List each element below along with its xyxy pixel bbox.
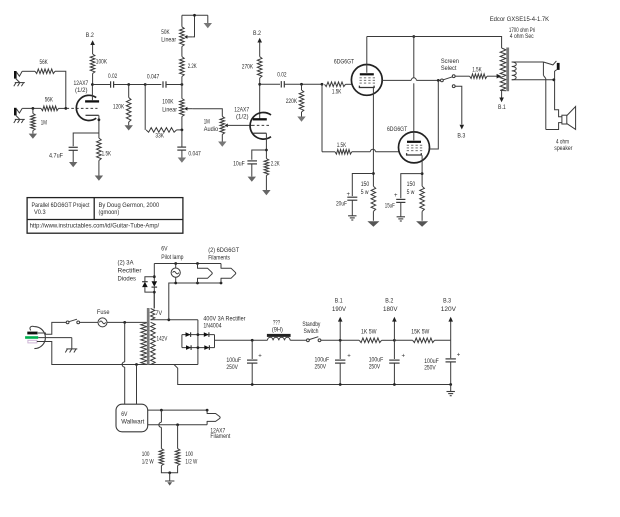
svg-text:250V: 250V	[369, 364, 381, 371]
OT secondary winding	[512, 62, 517, 80]
svg-text:Pilot lamp: Pilot lamp	[161, 254, 183, 261]
wire 56K to tube grid	[59, 107, 67, 109]
svg-text:(1/2): (1/2)	[236, 113, 249, 120]
resistor 120K	[113, 85, 131, 126]
svg-text:+: +	[347, 354, 351, 360]
diode pair (2) 3A rectifier	[118, 260, 158, 309]
svg-text:1.5K: 1.5K	[332, 89, 342, 96]
input jack J2	[14, 108, 22, 116]
svg-text:0.02: 0.02	[277, 72, 286, 79]
wiper 100K wire to 1M audio	[184, 107, 222, 117]
svg-text:B.2: B.2	[385, 298, 393, 305]
node 33K branch	[144, 83, 147, 86]
T1 7V winding	[151, 309, 163, 320]
svg-text:0.047: 0.047	[188, 150, 201, 157]
svg-text:250V: 250V	[315, 364, 327, 371]
ground bus	[174, 365, 452, 386]
svg-text:+: +	[394, 193, 398, 199]
svg-text:Screen: Screen	[441, 58, 459, 65]
wire J2 to 1M node	[22, 107, 41, 109]
wire jack to speaker +	[555, 80, 562, 117]
svg-text:1/2 W: 1/2 W	[185, 458, 197, 465]
svg-text:By Doug Germon, 2000: By Doug Germon, 2000	[99, 202, 160, 209]
capacitor 0.02 (stage1)	[108, 73, 117, 88]
svg-text:120K: 120K	[113, 103, 125, 110]
svg-text:(1/2): (1/2)	[75, 87, 88, 94]
wire 56K to grid node	[55, 71, 66, 108]
svg-text:100: 100	[185, 451, 193, 458]
B.2 supply arrow (stage1)	[86, 32, 95, 54]
resistor 2.2K	[180, 57, 197, 85]
capacitor 0.02 (stage2)	[277, 72, 286, 88]
transformer T1 primary	[141, 323, 147, 365]
triode V1A 12AX7	[74, 80, 100, 120]
6V Wallwart box	[116, 404, 148, 432]
svg-text:???: ???	[273, 320, 280, 327]
wire 0.047 to tone pot	[166, 84, 182, 86]
svg-text:100uF: 100uF	[369, 357, 384, 364]
svg-text:+: +	[347, 192, 351, 198]
svg-text:5 w: 5 w	[361, 189, 369, 196]
pot 1M Audio	[204, 116, 225, 141]
resistor 270K plate load	[242, 57, 262, 78]
resistor 1M	[31, 108, 47, 133]
transformer T1 core	[147, 308, 150, 365]
wire standby to B.1	[321, 339, 359, 341]
OT core	[506, 48, 509, 92]
heater wire top	[148, 409, 209, 412]
ground 20uF	[348, 215, 356, 217]
svg-text:Wallwart: Wallwart	[121, 419, 144, 426]
resistor 15K 5W	[394, 329, 450, 343]
safety ground symbol	[66, 348, 77, 350]
svg-text:7V: 7V	[156, 310, 163, 317]
svg-text:10uF: 10uF	[233, 161, 245, 168]
node plate V1B	[258, 83, 261, 86]
svg-text:1N4004: 1N4004	[203, 322, 221, 329]
node grid V1A	[64, 107, 67, 110]
wire secondary to speaker -	[543, 62, 562, 130]
ground 10uF	[248, 177, 256, 182]
wire to 0.047	[145, 84, 161, 86]
svg-text:V0.3: V0.3	[34, 209, 46, 216]
node B.1	[332, 298, 347, 342]
screen wire V2	[382, 78, 441, 82]
svg-text:250V: 250V	[424, 364, 436, 371]
switch Screen Select	[441, 58, 460, 88]
capacitor 0.047 to ground	[177, 130, 201, 158]
capacitor 0.047 series	[147, 74, 166, 88]
capacitor 20uF	[336, 192, 357, 216]
node B.3	[441, 298, 457, 341]
svg-text:(gmoon): (gmoon)	[99, 209, 120, 216]
wire 270K to plate	[259, 78, 261, 119]
svg-text:100K: 100K	[162, 98, 174, 105]
speaker jack tip	[557, 63, 560, 70]
svg-text:142V: 142V	[157, 336, 168, 343]
svg-text:15K 5W: 15K 5W	[411, 329, 430, 336]
capacitor 100uF no.2	[315, 340, 352, 384]
svg-text:http://www.instructables.com/i: http://www.instructables.com/id/Guitar-T…	[30, 222, 160, 229]
svg-text:6DG6GT: 6DG6GT	[387, 126, 407, 133]
svg-text:speaker: speaker	[554, 145, 573, 152]
svg-text:50K: 50K	[161, 29, 170, 36]
svg-text:1K 5W: 1K 5W	[361, 329, 377, 336]
B.2 supply arrow (stage2)	[253, 30, 262, 56]
svg-text:Standby: Standby	[302, 321, 321, 328]
svg-text:33K: 33K	[155, 133, 164, 140]
svg-text:Switch: Switch	[304, 328, 319, 335]
rectifier AC drop	[197, 320, 199, 365]
wire cathode to 4.7uF	[73, 133, 99, 146]
ground 50K top	[204, 15, 212, 28]
node pot bottom	[181, 129, 184, 132]
capacitor 100uF 250V no.1	[226, 340, 262, 384]
wire to 15uF	[401, 174, 422, 199]
svg-text:100: 100	[142, 451, 150, 458]
filament V2/V3 no.1	[198, 247, 240, 283]
cathode wire V3	[421, 155, 424, 186]
resistor 56K (ch2)	[41, 97, 59, 111]
svg-text:150: 150	[361, 181, 370, 188]
svg-text:Fuse: Fuse	[97, 309, 110, 316]
capacitor 15uF	[385, 193, 406, 217]
triode V1B 12AX7	[234, 107, 271, 140]
top plate wire to OT	[367, 37, 502, 49]
wire plate to 0.02	[93, 84, 111, 86]
wire pot top rail	[182, 14, 208, 16]
svg-text:5 w: 5 w	[407, 189, 415, 196]
resistor 100K plate load	[90, 54, 107, 74]
ground 120K	[125, 125, 133, 130]
pilot lamp 6V	[161, 246, 183, 283]
node 1M junction	[32, 107, 35, 110]
resistor 1.5K grid (upper)	[325, 82, 352, 96]
filament V2/V3 no.2	[221, 264, 236, 284]
node grid split	[321, 83, 324, 86]
svg-text:120V: 120V	[441, 306, 457, 313]
svg-text:250V: 250V	[226, 364, 238, 371]
svg-text:270K: 270K	[242, 63, 254, 70]
svg-text:B.3: B.3	[457, 133, 465, 140]
node 120K	[127, 83, 130, 86]
svg-text:6DG6GT: 6DG6GT	[334, 58, 354, 65]
capacitor 10uF	[233, 161, 257, 177]
hot wire to switch	[38, 322, 66, 334]
wiper 1M to V1B grid	[225, 124, 270, 128]
filament top rail	[154, 262, 221, 265]
switch Standby	[302, 321, 321, 342]
svg-text:Linear: Linear	[162, 106, 177, 113]
svg-text:B.1: B.1	[498, 104, 506, 111]
resistor 220K	[286, 84, 304, 116]
svg-text:B.1: B.1	[335, 298, 343, 305]
input jack J1	[14, 71, 22, 79]
resistor 150 5w (V2)	[361, 181, 376, 221]
wire J1 to R 56K	[22, 70, 35, 72]
svg-text:1.5K: 1.5K	[337, 142, 347, 149]
green safety ground wire	[38, 338, 72, 349]
ground 220K	[297, 117, 305, 122]
wire to 20uF	[352, 174, 373, 197]
wire switch to fuse	[80, 321, 98, 323]
svg-text:B.2: B.2	[86, 32, 94, 39]
resistor 56K (ch1)	[35, 59, 55, 74]
capacitor 100uF no.4	[424, 340, 461, 384]
resistor 1.5K cathode	[97, 138, 112, 161]
wire choke to standby	[290, 339, 306, 341]
svg-text:Audio: Audio	[204, 126, 219, 133]
wiper 50K	[184, 14, 196, 39]
svg-text:100uF: 100uF	[226, 357, 241, 364]
neutral wire	[37, 342, 198, 366]
svg-text:+: +	[402, 354, 406, 360]
cathode wire V2	[372, 88, 375, 186]
svg-text:Linear: Linear	[161, 36, 176, 43]
svg-text:2.2K: 2.2K	[188, 63, 197, 70]
svg-text:400V 3A Rectifier: 400V 3A Rectifier	[203, 315, 246, 322]
power switch	[66, 319, 79, 324]
B+ wire from rectifier	[215, 339, 268, 342]
humdinger resistor 100 (left)	[142, 410, 164, 466]
resistor 2.2K cathode V1B	[264, 159, 280, 191]
wire 100K to plate node	[92, 74, 94, 85]
svg-text:Diodes: Diodes	[118, 276, 137, 283]
wire 0.02 to 120K node	[114, 84, 146, 86]
humdinger resistor 100 (right)	[175, 425, 198, 466]
filament 12AX7	[207, 410, 230, 440]
jack J1 ground	[14, 79, 25, 87]
humdinger center tap ground	[161, 466, 177, 486]
svg-text:+: +	[258, 354, 262, 360]
svg-text:1.5K: 1.5K	[102, 151, 112, 158]
svg-text:0.02: 0.02	[108, 73, 117, 80]
plate lead V1A	[91, 85, 93, 102]
svg-text:B.2: B.2	[253, 30, 261, 37]
screen drop to V3	[430, 80, 439, 149]
jack sleeve wire	[555, 70, 557, 80]
svg-text:6V: 6V	[121, 411, 128, 418]
wire plate V1B to 0.02	[260, 83, 280, 85]
ground 1M audio	[218, 142, 226, 147]
secondary top wire to jack	[512, 61, 557, 65]
AC plug	[25, 326, 45, 348]
wire split to lower grid	[321, 84, 323, 152]
svg-text:6V: 6V	[161, 246, 168, 253]
capacitor 100uF no.3	[369, 340, 406, 384]
node 220K	[300, 83, 303, 86]
jack J2 ground	[14, 115, 25, 123]
svg-text:2.2K: 2.2K	[271, 161, 280, 168]
svg-text:Parallel 6DG6GT Project: Parallel 6DG6GT Project	[32, 202, 90, 209]
T1 142V winding	[151, 322, 168, 364]
ground 0.047	[178, 158, 186, 163]
svg-text:(2) 6DG6GT: (2) 6DG6GT	[208, 247, 239, 254]
ground 4.7uF	[69, 162, 77, 167]
wire fuse to transformer	[107, 321, 147, 324]
speaker 4 ohm	[554, 107, 575, 152]
svg-text:150: 150	[407, 181, 416, 188]
svg-text:B.3: B.3	[443, 298, 451, 305]
ground V1A cathode	[95, 176, 103, 181]
pot 50K Linear	[161, 15, 184, 56]
svg-text:4.7uF: 4.7uF	[49, 153, 63, 160]
wire cathode to 10uF	[252, 150, 267, 160]
svg-text:56K: 56K	[40, 59, 49, 66]
svg-text:Rectifier: Rectifier	[118, 268, 143, 275]
svg-text:1/2 W: 1/2 W	[142, 458, 154, 465]
svg-text:Filament: Filament	[210, 433, 230, 440]
svg-text:1.5K: 1.5K	[472, 67, 482, 74]
pentode V2 6DG6GT	[334, 58, 382, 95]
rectifier 400V 3A 1N4004	[182, 315, 246, 350]
pentode V3 6DG6GT	[387, 126, 430, 163]
ground V3 cathode	[416, 221, 428, 227]
svg-text:(2) 3A: (2) 3A	[118, 260, 135, 267]
svg-text:4 ohm Sec: 4 ohm Sec	[510, 33, 534, 40]
svg-text:100uF: 100uF	[315, 357, 330, 364]
transformer T2 Edcor labels	[490, 16, 550, 40]
node B.2	[383, 298, 398, 342]
svg-text:Select: Select	[441, 65, 457, 72]
cathode wire V1B	[265, 133, 268, 158]
capacitor 4.7uF	[49, 147, 78, 162]
svg-text:190V: 190V	[332, 306, 347, 313]
tap wire to rectifier	[151, 318, 198, 321]
plate lead V3	[412, 35, 415, 140]
resistor 1.5K grid (lower)	[322, 142, 399, 154]
title block	[27, 198, 183, 234]
svg-text:20uF: 20uF	[336, 201, 347, 208]
svg-text:220K: 220K	[286, 98, 298, 105]
filament bottom rail	[169, 282, 223, 320]
svg-text:(9H): (9H)	[272, 327, 283, 334]
node plate V1A	[91, 83, 94, 86]
svg-text:0.047: 0.047	[147, 74, 160, 81]
secondary bottom wire	[512, 78, 555, 81]
fuse	[97, 309, 110, 327]
wallwart feed neutral	[136, 365, 138, 405]
svg-text:1M: 1M	[204, 119, 210, 126]
grid dashed wire V1A	[67, 107, 98, 109]
svg-text:56K: 56K	[45, 97, 54, 104]
svg-text:100K: 100K	[96, 58, 108, 65]
svg-text:+: +	[457, 353, 461, 359]
B.1 lead below OT	[498, 90, 506, 111]
OT primary winding	[500, 48, 506, 91]
svg-text:180V: 180V	[383, 306, 398, 313]
resistor 1.5K screen	[455, 67, 501, 79]
svg-text:1M: 1M	[41, 120, 47, 127]
ground 15uF	[397, 216, 405, 218]
wallwart feed hot	[122, 322, 125, 404]
ground below 1M	[29, 134, 37, 139]
ground 2.2K	[262, 190, 270, 195]
cathode wire V1A	[98, 115, 101, 138]
svg-text:15uF: 15uF	[385, 203, 395, 210]
ground V2 cathode	[367, 221, 379, 227]
resistor 33K	[145, 85, 182, 140]
7V top lead	[153, 292, 155, 308]
wire to 220K node	[284, 83, 322, 85]
choke ??? 9H	[267, 320, 291, 341]
resistor 150 5w (V3)	[407, 181, 425, 221]
heater wire bottom	[148, 423, 207, 426]
wire to B.3 arrow	[455, 86, 466, 140]
ground bus terminal	[447, 385, 455, 396]
resistor 1K 5W	[359, 329, 394, 343]
svg-text:Filaments: Filaments	[208, 255, 230, 262]
pot 100K Linear	[162, 85, 184, 130]
wire to ground	[98, 161, 100, 176]
plate lead V2	[366, 37, 368, 73]
svg-text:Edcor GXSE15-4-1.7K: Edcor GXSE15-4-1.7K	[490, 16, 550, 23]
